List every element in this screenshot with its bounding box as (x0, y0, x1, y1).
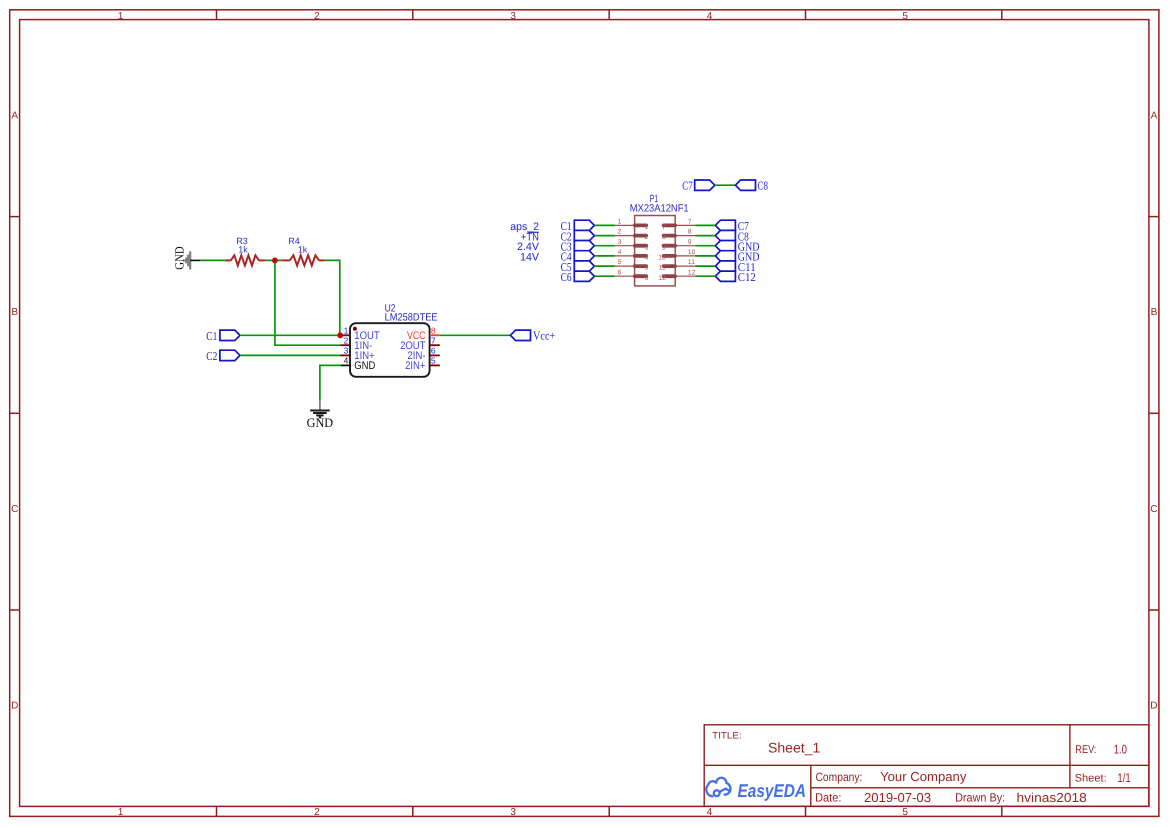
svg-text:C1: C1 (206, 329, 217, 343)
svg-text:1: 1 (118, 11, 124, 22)
svg-text:EasyEDA: EasyEDA (738, 780, 807, 801)
junction dot on 1OUT net (337, 332, 343, 338)
svg-text:A: A (11, 110, 18, 121)
svg-text:GND: GND (307, 415, 334, 430)
ground net flag GND (left, rotated) (185, 251, 191, 269)
svg-text:8: 8 (431, 326, 436, 336)
svg-text:2: 2 (344, 335, 349, 345)
net port Vcc+ (510, 330, 530, 340)
resistor R3 1k (226, 255, 265, 265)
P1 pin 5 (615, 265, 635, 267)
svg-text:6: 6 (431, 346, 436, 356)
svg-text:A: A (1151, 110, 1158, 121)
svg-text:7: 7 (431, 335, 436, 345)
svg-text:MX23A12NF1: MX23A12NF1 (630, 203, 689, 215)
svg-text:11: 11 (688, 259, 695, 266)
svg-text:2: 2 (314, 11, 320, 22)
wire C2 to U2 pin 3 (240, 354, 341, 356)
svg-text:2019-07-03: 2019-07-03 (864, 790, 931, 805)
svg-text:5: 5 (431, 356, 436, 366)
svg-text:2IN+: 2IN+ (405, 360, 425, 372)
svg-text:C8: C8 (758, 179, 769, 193)
net port C1 (220, 330, 240, 340)
svg-text:3: 3 (510, 11, 516, 22)
wire P1 pin 6 (595, 275, 615, 277)
svg-text:4: 4 (707, 807, 713, 818)
net port C1 (P1 pin 1) (574, 220, 594, 230)
junction dot node R3/R4 (272, 258, 278, 264)
svg-text:14V: 14V (520, 251, 540, 263)
svg-text:6: 6 (645, 275, 649, 282)
svg-text:10: 10 (658, 255, 666, 262)
wire U2 pin 4 to GND (320, 365, 341, 400)
U2 pin 4 (GND) (341, 364, 350, 366)
svg-text:Drawn By:: Drawn By: (955, 791, 1005, 805)
net port C7 (P1 pin 7) (715, 220, 735, 230)
P1 pin 12 (675, 275, 695, 277)
svg-text:1.0: 1.0 (1114, 743, 1127, 757)
svg-text:Vcc+: Vcc+ (533, 329, 555, 343)
P1 pin 3 (615, 245, 635, 247)
U2 pin 8 (VCC) (430, 334, 440, 336)
svg-text:10: 10 (688, 249, 696, 256)
svg-text:12: 12 (658, 275, 666, 282)
net port C4 (P1 pin 4) (574, 251, 594, 261)
svg-text:1: 1 (118, 807, 124, 818)
wire U2 pin 8 to Vcc+ (440, 334, 511, 336)
svg-text:1/1: 1/1 (1117, 771, 1130, 785)
wire GND stub (black) (190, 259, 200, 261)
svg-text:11: 11 (659, 265, 666, 272)
svg-text:1: 1 (645, 224, 649, 231)
svg-text:GND: GND (173, 246, 187, 270)
P1 pin 1 (615, 224, 635, 226)
svg-text:D: D (1150, 701, 1157, 712)
resistor R4 1k (282, 255, 325, 265)
net port C8 (P1 pin 8) (715, 230, 735, 240)
svg-text:3: 3 (645, 244, 649, 251)
svg-text:B: B (11, 307, 18, 318)
svg-text:2: 2 (645, 234, 649, 241)
net port GND (P1 pin 9) (715, 241, 735, 251)
svg-text:Sheet:: Sheet: (1075, 773, 1107, 785)
net port C2 (P1 pin 2) (574, 230, 594, 240)
svg-text:1k: 1k (298, 245, 308, 255)
svg-text:GND: GND (354, 360, 375, 372)
svg-text:1k: 1k (238, 245, 248, 255)
svg-text:2: 2 (314, 807, 320, 818)
connector P1 MX23A12NF1 body (635, 216, 676, 286)
U2 pin 3 (1IN+) (341, 354, 351, 356)
net port C12 (P1 pin 12) (715, 271, 735, 281)
svg-text:Your Company: Your Company (880, 769, 967, 784)
svg-text:3: 3 (618, 239, 622, 246)
svg-text:8: 8 (662, 234, 666, 241)
svg-text:Date:: Date: (815, 791, 841, 805)
U2 pin 2 (1IN-) (341, 344, 351, 346)
wire P1 pin 4 (595, 255, 615, 257)
svg-text:REV:: REV: (1075, 744, 1096, 756)
wire P1 pin 8 (695, 235, 715, 237)
svg-text:C6: C6 (561, 270, 572, 284)
wire R3 to R4 (265, 259, 282, 261)
net port C5 (P1 pin 5) (574, 261, 594, 271)
svg-text:2: 2 (618, 229, 622, 236)
P1 pin 4 (615, 255, 635, 257)
svg-text:9: 9 (662, 244, 666, 251)
svg-text:5: 5 (618, 259, 622, 266)
ground net flag GND (bottom) (319, 400, 321, 410)
net port C3 (P1 pin 3) (574, 241, 594, 251)
wire junction to U2 pin 2 (275, 260, 341, 345)
wire C1 to U2 pin 1 (240, 334, 341, 336)
svg-text:hvinas2018: hvinas2018 (1017, 790, 1087, 805)
svg-text:5: 5 (902, 11, 908, 22)
P1 pin 8 (675, 235, 695, 237)
P1 pin 9 (675, 245, 695, 247)
svg-text:8: 8 (688, 229, 692, 236)
svg-text:3: 3 (344, 346, 349, 356)
svg-text:C2: C2 (206, 349, 217, 363)
U2 pin 7 (2OUT) (430, 344, 440, 346)
P1 pin 7 (675, 224, 695, 226)
net port C7 (top) (695, 180, 715, 190)
wire P1 pin 7 (695, 224, 715, 226)
wire P1 pin 10 (695, 255, 715, 257)
svg-text:C12: C12 (738, 270, 756, 284)
svg-text:C: C (1150, 504, 1157, 515)
U2 pin 1 (1OUT) (341, 334, 350, 336)
wire P1 pin 12 (695, 275, 715, 277)
svg-text:5: 5 (645, 265, 649, 272)
svg-text:Company:: Company: (816, 770, 863, 784)
P1 pin 10 (675, 255, 695, 257)
op-amp U2 LM258DTEE body (350, 323, 430, 377)
U2 pin 5 (2IN+) (430, 364, 440, 366)
svg-text:D: D (11, 701, 18, 712)
net port C8 (top) (735, 180, 755, 190)
net port C2 (220, 350, 240, 360)
net port C11 (P1 pin 11) (715, 261, 735, 271)
svg-text:3: 3 (510, 807, 516, 818)
svg-text:TITLE:: TITLE: (712, 730, 742, 741)
svg-text:4: 4 (344, 356, 349, 366)
svg-text:1: 1 (344, 326, 349, 336)
net port GND (P1 pin 10) (715, 251, 735, 261)
wire GND to R3 (200, 259, 226, 261)
wire P1 pin 3 (595, 245, 615, 247)
svg-text:4: 4 (707, 11, 713, 22)
P1 pin 6 (615, 275, 635, 277)
svg-text:B: B (1151, 307, 1158, 318)
svg-text:12: 12 (688, 269, 696, 276)
svg-text:6: 6 (618, 269, 622, 276)
svg-text:LM258DTEE: LM258DTEE (385, 311, 438, 323)
text net annotations aps_2 / +TN / 2.4V / 14V (510, 221, 539, 263)
svg-text:4: 4 (618, 249, 622, 256)
svg-text:C7: C7 (682, 179, 693, 193)
wire C7 to C8 (715, 184, 736, 186)
wire P1 pin 1 (595, 224, 615, 226)
svg-text:C: C (11, 504, 18, 515)
svg-text:Sheet_1: Sheet_1 (768, 740, 821, 756)
P1 pin 2 (615, 235, 635, 237)
wire R4 to U2 pin 1 net (325, 260, 340, 335)
wire P1 pin 5 (595, 265, 615, 267)
wire P1 pin 11 (695, 265, 715, 267)
U2 pin 6 (2IN-) (430, 354, 440, 356)
svg-text:9: 9 (688, 239, 692, 246)
svg-text:1: 1 (618, 219, 622, 226)
wire P1 pin 9 (695, 245, 715, 247)
P1 pin 11 (675, 265, 695, 267)
svg-text:5: 5 (902, 807, 908, 818)
wire P1 pin 2 (595, 235, 615, 237)
svg-text:7: 7 (688, 219, 692, 226)
svg-text:4: 4 (645, 255, 649, 262)
svg-text:7: 7 (662, 224, 666, 231)
net port C6 (P1 pin 6) (574, 271, 594, 281)
